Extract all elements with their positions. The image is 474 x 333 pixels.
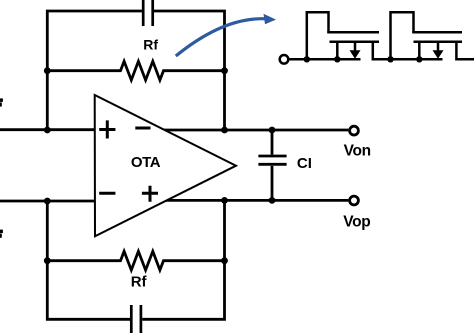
svg-text:OTA: OTA <box>131 154 161 171</box>
svg-text:Rf: Rf <box>131 273 148 290</box>
svg-text:Vop: Vop <box>343 214 370 231</box>
svg-text:Rf: Rf <box>143 37 158 53</box>
svg-text:Von: Von <box>344 143 371 160</box>
svg-text:CI: CI <box>297 155 312 172</box>
